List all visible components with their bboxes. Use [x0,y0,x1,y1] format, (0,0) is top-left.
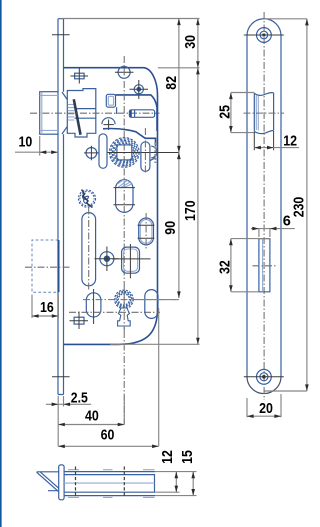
lower horizontal centerline [69,311,160,313]
deadbolt slot [259,239,270,292]
dimension 16 [32,295,58,319]
svg-text:12: 12 [283,134,297,150]
plate extension lines down [58,396,63,446]
follower centerline [108,152,179,154]
shaft top dashes [68,469,155,471]
bottom screw cross [70,312,89,330]
extension line plate top [62,18,200,20]
rivet mid crosshair [95,247,119,272]
extension case right down [158,308,160,446]
long guide slot [82,213,96,286]
lower capsule vertical centerline [93,289,95,324]
svg-text:20: 20 [259,401,273,417]
dimension 12 cutout [254,131,299,150]
coil spring diagonal [82,190,93,208]
keyhole vertical centerline overlay [123,288,125,331]
latch bolt head inner lines [40,92,58,135]
follower cage curve [103,128,156,145]
lock case outline [64,68,158,345]
dimension 2.5 [46,391,91,407]
plate bar cross-section [59,465,64,500]
roller stadium double [139,218,154,245]
top screw hole [257,28,272,43]
capsule bars [114,188,136,205]
left slot stadium [99,134,107,169]
svg-text:90: 90 [163,221,179,235]
svg-text:12: 12 [160,450,176,464]
latch axis centerline [30,112,160,114]
dimension 12 bottom [160,450,178,492]
extension line case bottom [110,343,200,345]
deadbolt thrown dashed [32,240,58,292]
slot horizontal centerline [253,265,277,267]
faceplate bottom arc [247,377,281,394]
dimension 40 [58,409,124,427]
dimension line 30/170 [197,19,199,345]
rivet filled circle top [134,85,143,94]
rivet filled circle mid [100,252,114,266]
rounded slot crosshair [112,244,151,278]
rivet crosshair [130,80,149,99]
svg-text:2.5: 2.5 [71,391,88,407]
top fixing hole [118,66,130,78]
faceplate vertical centerline [263,12,265,400]
extension follower axis down [123,396,125,425]
section dashed vertical 1 [75,467,77,498]
svg-text:10: 10 [19,135,33,151]
faceplate screw position tick top [52,34,70,36]
dimension 90 end extension [140,299,179,301]
main vertical centerline [123,56,125,425]
latch bolt head [40,92,58,135]
top fixing hole centerline [115,71,134,73]
right slot stadium [141,142,150,172]
latch cutout inner lines [256,96,258,131]
top screw symbol [75,73,85,79]
lower capsule link [86,293,101,317]
keyhole stem [118,308,131,326]
section dashed vertical 2 [123,467,125,498]
svg-text:32: 32 [217,260,233,274]
svg-text:6: 6 [283,214,291,230]
keyhole rings [115,290,134,309]
svg-text:82: 82 [164,76,180,90]
top screw centerline [244,34,284,36]
svg-text:60: 60 [101,428,115,444]
coil spring circle [79,190,96,207]
bottom screw centerline [244,376,284,378]
capsule hatching [118,180,133,188]
deadbolt face solid [58,240,60,292]
horizontal pin cylinder [129,110,154,118]
svg-text:230: 230 [292,197,308,218]
right slot centerline [144,128,146,174]
latch shaft outer lines [64,472,155,496]
svg-text:25: 25 [218,105,234,119]
faceplate edge caps [58,19,64,395]
pivot semicircle [102,118,115,125]
latch shaft mid line [64,482,154,484]
page left border [0,0,2,527]
rounded square slot double [122,247,140,273]
deadbolt centerline [25,266,70,268]
arrows 82/90 [177,19,181,299]
dimension 10 [15,135,58,156]
arrows 30/170 [196,19,200,345]
dimension 15 bottom [180,450,196,496]
latch cutout [254,93,273,134]
extension lines 12/15 [155,472,196,496]
faceplate screw position tick bottom [52,376,70,378]
dimension 60 [58,428,159,449]
cutout horizontal centerline [244,112,285,114]
latch tail body [67,89,96,137]
roller bars [138,225,155,238]
svg-text:170: 170 [183,200,199,221]
faceplate edge outer line [57,19,59,395]
svg-text:40: 40 [85,409,99,425]
extension line case top [158,67,200,69]
cage gray dashed band [154,143,156,164]
roller centerline [145,213,147,249]
cylinder stadium at case edge [145,290,158,319]
dimension 6 [251,214,295,237]
spring bracket arm [116,95,158,131]
deadbolt slot inner line [262,239,264,292]
its crosshair [84,146,99,160]
bottom screw symbol [74,317,84,324]
latch shaft inner [64,475,154,493]
latch guide lines [75,109,96,119]
dimension 20 [247,394,281,418]
svg-text:15: 15 [180,450,196,464]
small circle left of follower [86,148,97,159]
follower rings [110,138,140,168]
dimension 32 [217,239,270,292]
shaft bottom dashes [68,496,155,498]
keyhole horizontal centerline [83,299,179,301]
dimension 25 [218,93,255,133]
svg-text:16: 16 [40,300,54,316]
dimension line 82/90 [178,19,180,299]
coil spring inner curl [83,194,89,204]
bracket drop line [116,107,118,114]
faceplate edge inner line [63,19,65,395]
latch spring diagonal [74,99,81,135]
dimension 230 [265,19,309,391]
follower square hole [117,145,132,160]
bottom screw hole [257,369,272,384]
spring bracket rounded rect [106,94,115,107]
latch nose wedge [37,472,59,492]
top screw cross [71,68,89,84]
latch bolt bevel [62,92,67,134]
long slot centerline [88,208,90,292]
lever capsule below follower [116,180,133,213]
follower cage lower hook [150,146,157,161]
svg-text:30: 30 [183,35,199,49]
pivot cross [104,120,114,131]
faceplate outline sides and top arc [247,19,281,377]
latch spring coils [68,105,75,121]
